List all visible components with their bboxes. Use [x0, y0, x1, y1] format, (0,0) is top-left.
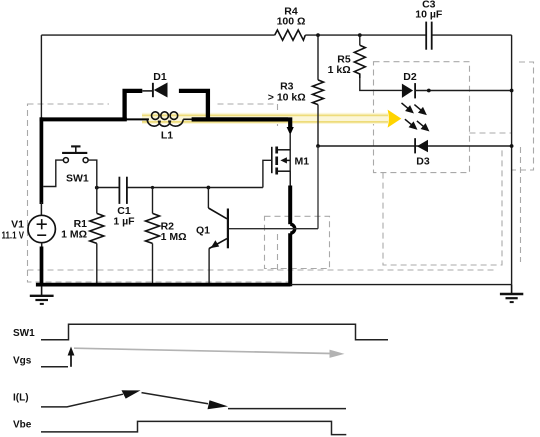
- MOSFET M1: [263, 147, 309, 188]
- wire: main thick rail (battery plus): [40, 117, 127, 121]
- svg-text:Q1: Q1: [196, 225, 210, 237]
- LED D2: [402, 71, 512, 98]
- svg-text:D1: D1: [153, 71, 167, 83]
- dashed region LED box: [374, 62, 470, 173]
- dashed region mid-right: [383, 150, 502, 265]
- node dot right wire D3: [510, 144, 514, 148]
- highlight band (inductor current path, pale yellow): [142, 113, 388, 124]
- dashed long bottom line: [278, 269, 498, 271]
- node dot R5 junction: [358, 33, 362, 37]
- node dot SW1/R1: [95, 186, 99, 190]
- svg-text:I(L): I(L): [13, 393, 29, 404]
- white mask over dashes (M1 area): [258, 126, 289, 230]
- diode D1 bypass loop (thick wire): [125, 91, 208, 120]
- dashed region skirt bottom-left: [28, 270, 290, 282]
- timing diagram: SW1 trace: [13, 324, 388, 340]
- white mask over dashes (D1 loop area): [109, 99, 215, 110]
- node dot R2 top: [151, 186, 154, 189]
- svg-text:11.1 V: 11.1 V: [2, 231, 25, 242]
- svg-text:L1: L1: [161, 130, 173, 142]
- svg-text:10 µF: 10 µF: [415, 9, 443, 21]
- inductor L1: [147, 112, 192, 126]
- svg-text:1 MΩ: 1 MΩ: [161, 231, 187, 243]
- dashed junction box (Q1 base / M1 source): [265, 216, 330, 268]
- node dot right wire D2: [510, 89, 514, 93]
- svg-text:1 kΩ: 1 kΩ: [328, 64, 351, 76]
- ground right: [500, 285, 523, 303]
- wire: rail medium segment to inductor: [125, 118, 149, 120]
- highlight arrow head (yellow): [388, 110, 402, 128]
- resistor R1: [61, 188, 104, 285]
- svg-text:SW1: SW1: [66, 173, 89, 185]
- Vgs step arrow (black up): [70, 352, 72, 367]
- wire: thick rail from inductor to M1 drain corner: [192, 117, 291, 127]
- wire: right vertical: [511, 35, 513, 285]
- LED light arrows: [402, 103, 429, 130]
- timing diagram: Vgs trace: [13, 347, 345, 367]
- LED D3: [318, 138, 512, 167]
- node dot Q1 collector: [207, 186, 211, 190]
- wire: R3 node down to Q1 base level: [317, 146, 319, 229]
- resistor R2: [146, 188, 187, 285]
- dashed verticals far right: [520, 147, 522, 262]
- wire: M1 source thick vertical with hop over base wire: [289, 171, 291, 186]
- resistor R3: [268, 35, 324, 146]
- I(L) rise arrowhead: [122, 390, 141, 398]
- resistor R5: [328, 35, 402, 90]
- wire: bottom rail thin right: [291, 284, 512, 286]
- diode D1: [142, 71, 167, 98]
- timing diagram: Vbe trace: [13, 420, 346, 435]
- svg-text:V1: V1: [11, 219, 24, 231]
- svg-text:SW1: SW1: [13, 328, 35, 339]
- wire hop (source wire over base wire): [290, 224, 295, 233]
- ground left: [30, 286, 54, 304]
- resistor R4: [275, 6, 306, 41]
- svg-text:1 MΩ: 1 MΩ: [61, 229, 87, 241]
- wire: left vertical thin (V+ to top): [40, 35, 42, 118]
- svg-text:M1: M1: [295, 156, 310, 168]
- svg-text:D3: D3: [416, 155, 430, 167]
- svg-text:Vbe: Vbe: [13, 420, 32, 431]
- node dot R4/R3 junction: [316, 33, 320, 37]
- voltage source V1: [2, 202, 56, 286]
- transistor Q1: [196, 188, 228, 285]
- wire: bottom rail thick: [36, 283, 291, 287]
- dashed region rect left: [28, 104, 278, 270]
- wire: Q1 base to R3/D3 node: [229, 228, 318, 230]
- svg-text:1 µF: 1 µF: [113, 215, 135, 227]
- wire: top rail horizontal: [41, 34, 511, 36]
- svg-text:100 Ω: 100 Ω: [277, 16, 306, 28]
- wire: M1 drain thin vertical: [289, 133, 291, 187]
- dashed segment right of LED box: [470, 132, 512, 134]
- capacitor C3: [415, 0, 443, 50]
- current arrow on M1 drain wire: [287, 127, 294, 135]
- wire: gate RC line: [97, 187, 120, 189]
- switch SW1: [43, 146, 97, 187]
- I(L) fall arrowhead: [208, 400, 229, 409]
- node dot D3 left (R3 node): [316, 144, 320, 148]
- timing diagram: I(L) trace: [13, 390, 346, 409]
- svg-text:Vgs: Vgs: [13, 356, 32, 367]
- svg-text:> 10 kΩ: > 10 kΩ: [268, 92, 306, 104]
- svg-text:D2: D2: [403, 71, 417, 83]
- wire: left vertical thick (battery to rail corner): [40, 117, 44, 204]
- node dot D2 wire: [427, 89, 431, 93]
- capacitor C1: [113, 177, 135, 228]
- Vgs decay arrow (gray): [74, 348, 331, 353]
